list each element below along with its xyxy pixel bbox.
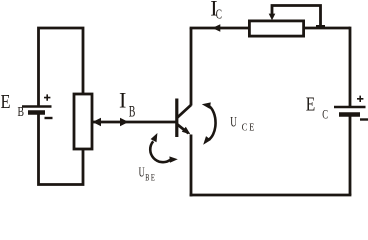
wire: E_C positive lead (right side top) (349, 27, 352, 107)
svg-text:I: I (119, 87, 126, 112)
arrowhead top of U_CE arc (202, 102, 211, 109)
svg-text:B: B (145, 173, 149, 183)
wire: emitter vertical (190, 135, 193, 197)
current arrow I_C (pointing left) (212, 24, 220, 31)
svg-text:U: U (139, 165, 145, 180)
svg-text:E: E (249, 121, 254, 133)
wire: E_C negative lead (right side bottom) (349, 115, 352, 196)
wire: left loop top side (39, 28, 84, 107)
label I_C (210, 0, 222, 22)
svg-text:E: E (306, 94, 316, 116)
svg-text:B: B (129, 103, 136, 120)
svg-text:E: E (1, 91, 11, 113)
current arrow I_B (pointing right) (120, 118, 129, 126)
svg-text:E: E (151, 173, 155, 183)
transistor V (NPN) base bar (175, 99, 178, 138)
wiper arrow into potentiometer (93, 118, 102, 126)
wire: E_B negative lead (left side bottom) (39, 112, 84, 185)
wire: right loop top, collector corner to resistor (190, 27, 249, 30)
wiper tap foot bar (316, 25, 325, 28)
battery E_C (334, 107, 366, 115)
label E_B (1, 91, 25, 120)
wire: right loop bottom (190, 194, 352, 197)
arrowhead right of U_BE arc (169, 156, 177, 162)
svg-text:C: C (322, 107, 328, 122)
battery E_B plus sign (44, 94, 50, 100)
label U_BE (139, 165, 155, 183)
label U_CE (230, 115, 254, 134)
battery E_C plus sign (357, 96, 363, 102)
transistor emitter arrowhead (182, 127, 191, 135)
wire: rheostat wiper tap loop (272, 6, 321, 28)
voltage arc U_CE (208, 106, 216, 141)
potentiometer RP (base bias rheostat) (74, 94, 92, 149)
transistor emitter diagonal (177, 124, 189, 133)
svg-text:B: B (18, 105, 25, 120)
arrowhead top of U_BE arc (151, 133, 158, 142)
voltage arc U_BE (150, 141, 170, 162)
svg-text:C: C (216, 7, 222, 22)
battery E_B minus sign (45, 117, 53, 119)
battery E_B (22, 107, 52, 113)
svg-text:C: C (242, 121, 248, 133)
label E_C (306, 94, 328, 122)
wire: collector vertical (190, 28, 193, 106)
rheostat wiper arrow (pointing down at resistor) (269, 14, 276, 21)
arrowhead bottom of U_CE arc (203, 136, 211, 145)
wire: right loop top, resistor to E_C (304, 27, 351, 30)
label I_B (119, 87, 135, 120)
wire: base wire from wiper to transistor base (92, 121, 177, 124)
battery E_C minus sign (360, 118, 368, 120)
transistor collector diagonal (177, 105, 191, 118)
svg-text:U: U (230, 115, 237, 131)
resistor RC (collector rheostat body) (249, 21, 303, 36)
